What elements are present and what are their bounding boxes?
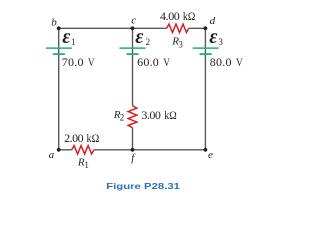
- svg-text:ε: ε: [209, 26, 218, 48]
- svg-text:2.00: 2.00: [64, 131, 84, 145]
- battery E3 long plate: [193, 47, 219, 49]
- battery E1 short plate: [53, 53, 65, 55]
- wire right branch d-e: [204, 28, 206, 150]
- svg-text:b: b: [51, 16, 57, 28]
- svg-text:1: 1: [84, 160, 89, 170]
- svg-text:a: a: [49, 149, 55, 161]
- battery E2 short plate: [127, 53, 139, 55]
- svg-text:4.00: 4.00: [160, 9, 180, 23]
- svg-text:2: 2: [120, 112, 125, 122]
- node b: [57, 26, 61, 30]
- svg-text:c: c: [131, 15, 136, 27]
- svg-text:Figure P28.31: Figure P28.31: [106, 181, 180, 191]
- node d: [204, 26, 208, 30]
- resistor R2 zigzag: [128, 106, 137, 128]
- wire middle branch c to R2 top: [132, 28, 134, 105]
- svg-text:ε: ε: [135, 26, 144, 48]
- wire bottom a to R1: [59, 149, 72, 151]
- svg-text:2: 2: [146, 37, 151, 47]
- svg-text:V: V: [236, 55, 243, 69]
- wire top left b-c-R3: [59, 27, 167, 29]
- svg-text:V: V: [88, 55, 95, 69]
- battery E1 long plate: [46, 47, 72, 49]
- wire top right R3-d: [189, 27, 206, 29]
- resistor R3 zigzag: [167, 24, 189, 32]
- node f: [131, 148, 135, 152]
- svg-text:3: 3: [218, 37, 223, 47]
- svg-text:kΩ: kΩ: [164, 108, 177, 122]
- svg-text:80.0: 80.0: [210, 55, 232, 69]
- resistor R1 zigzag: [72, 146, 94, 154]
- battery E3 short plate: [200, 53, 212, 55]
- battery E2 long plate: [119, 47, 145, 49]
- node a: [57, 148, 61, 152]
- svg-text:ε: ε: [62, 26, 71, 48]
- svg-text:e: e: [208, 149, 213, 161]
- svg-text:3: 3: [178, 39, 183, 49]
- wire left branch b-a: [58, 28, 60, 150]
- svg-text:60.0: 60.0: [137, 55, 159, 69]
- wire bottom R1 to e: [94, 149, 205, 151]
- svg-text:V: V: [163, 55, 170, 69]
- svg-text:kΩ: kΩ: [183, 9, 196, 23]
- svg-text:1: 1: [71, 37, 76, 47]
- svg-text:kΩ: kΩ: [87, 131, 100, 145]
- node c: [131, 26, 135, 30]
- svg-text:3.00: 3.00: [141, 108, 161, 122]
- svg-text:70.0: 70.0: [62, 55, 84, 69]
- node e: [204, 148, 208, 152]
- wire middle branch R2 bottom to f: [132, 128, 134, 150]
